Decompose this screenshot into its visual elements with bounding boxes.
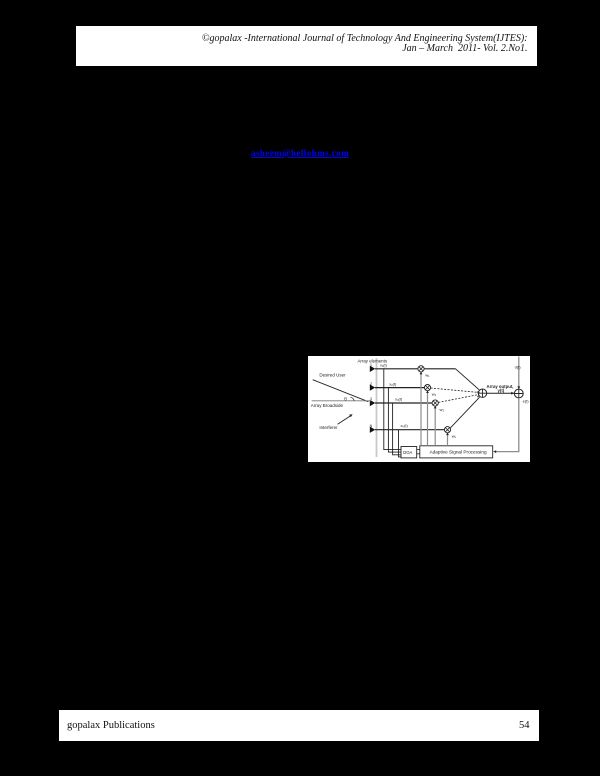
signal line row 4: [375, 429, 448, 431]
svg-text:x₃(t): x₃(t): [395, 397, 403, 402]
antenna triangles: [370, 366, 375, 372]
multiplier w4: [444, 427, 450, 433]
svg-text:wₖ: wₖ: [452, 434, 457, 439]
feedback line: [495, 398, 519, 452]
svg-text:Adaptive Signal Processing: Adaptive Signal Processing: [430, 450, 487, 455]
DOA to ASP connectors: [417, 449, 420, 451]
DOA box: [401, 447, 417, 458]
tap vertical row1: [384, 369, 401, 450]
footer left text: [67, 720, 155, 731]
d(t) reference line: [518, 357, 520, 389]
multiplier w2: [424, 385, 430, 391]
svg-text:w₃: w₃: [440, 407, 445, 412]
summing junction: [478, 389, 486, 397]
svg-text:DOA: DOA: [403, 450, 412, 455]
control line w2: [427, 391, 429, 445]
control line w1: [420, 373, 422, 446]
email link: [251, 148, 351, 158]
footer page number: [519, 720, 530, 731]
svg-text:w₁: w₁: [425, 373, 430, 378]
interferer arrow: [338, 416, 351, 425]
desired user wavefront line: [313, 380, 369, 402]
svg-text:x₂(t): x₂(t): [389, 381, 397, 386]
svg-text:Array Broadside: Array Broadside: [311, 403, 344, 408]
signal line row 2: [375, 387, 428, 389]
tap vertical row2: [388, 388, 401, 453]
control line w4: [447, 434, 449, 446]
tap vertical row4: [399, 430, 402, 457]
svg-text:e(t): e(t): [523, 398, 530, 403]
footer white strip: [59, 710, 539, 741]
multiplier w1: [418, 366, 424, 372]
signal line row 3: [375, 402, 435, 404]
Adaptive Signal Processing box: [420, 446, 493, 458]
signal line row 1: [375, 368, 456, 370]
output arrow to error junction: [487, 392, 514, 394]
header white strip: [76, 26, 537, 66]
svg-text:xₖ(t): xₖ(t): [401, 423, 409, 428]
svg-text:x₁(t): x₁(t): [380, 362, 388, 367]
multiplier w3: [432, 400, 438, 406]
header text: [76, 34, 528, 56]
error junction: [514, 389, 523, 398]
tap vertical row3: [393, 403, 402, 455]
array broadside line: [312, 400, 371, 402]
svg-text:w₂: w₂: [432, 391, 437, 396]
array axis (light vertical): [376, 358, 378, 457]
control line w3: [434, 407, 436, 446]
figure: [308, 356, 530, 462]
svg-text:Interferer: Interferer: [319, 425, 338, 430]
svg-text:Desired User: Desired User: [319, 373, 346, 378]
svg-text:d(t): d(t): [515, 364, 522, 369]
svg-text:y(t): y(t): [498, 388, 505, 393]
